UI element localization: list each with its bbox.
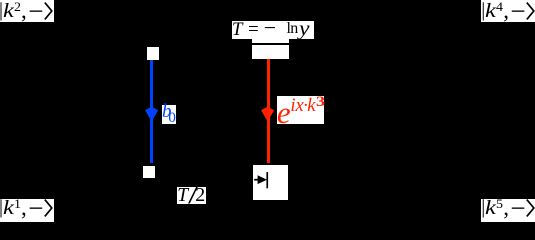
arrowhead on blue b0 line (downward)	[145, 106, 158, 122]
node: external state ket |k^1,-> (bottom-left)	[0, 199, 54, 222]
arrowhead hitting wall	[257, 175, 266, 184]
node: cap box with boundary slice line at T=-ln y	[252, 39, 289, 59]
label: T/2	[177, 187, 206, 205]
label: vertex operator e^{ix.k^3}	[277, 96, 324, 124]
node: external state ket |k^2,-> (top-left)	[0, 0, 54, 22]
boundary wall bar	[266, 172, 268, 188]
wire: arrow tail	[254, 179, 260, 181]
node: external state ket |k^4,-> (top-right)	[481, 0, 535, 22]
arrowhead on red propagator (downward)	[261, 106, 274, 122]
label: time slice T = -ln y	[232, 21, 314, 40]
wire: red propagator line	[267, 59, 271, 163]
wire: blue b0 line	[150, 60, 153, 164]
label: b0 ghost insertion	[162, 105, 176, 124]
node: external state ket |k^5,-> (bottom-right)	[481, 199, 535, 222]
node: top square on b0 line	[147, 47, 159, 60]
node: bottom square on b0 line	[143, 166, 156, 178]
wire: horizontal slice line	[252, 43, 289, 45]
node: D-instanton boundary box with ->| symbol	[253, 165, 289, 200]
